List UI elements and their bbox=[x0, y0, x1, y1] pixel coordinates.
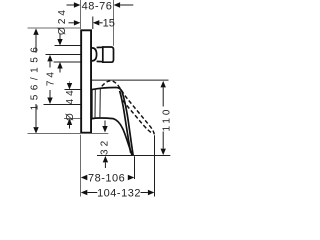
dimension 74 bbox=[45, 55, 56, 104]
handle base top reference line bbox=[65, 89, 92, 91]
escutcheon plate side view bbox=[81, 30, 91, 132]
dimension 48-76 bbox=[67, 1, 134, 13]
extension line knob front bbox=[113, 0, 115, 46]
extension line dashed lever tip bbox=[154, 135, 156, 196]
knob top reference line bbox=[55, 45, 81, 47]
110 top reference line bbox=[92, 79, 169, 81]
knob neck bbox=[97, 47, 103, 61]
dimension 156/156 bbox=[30, 28, 41, 133]
svg-text:Ø 44: Ø 44 bbox=[65, 87, 76, 121]
svg-text:78-106: 78-106 bbox=[88, 172, 125, 184]
handle base cone line bbox=[99, 89, 101, 119]
knob cap bbox=[103, 47, 114, 62]
knob bottom reference line bbox=[54, 61, 81, 63]
dimension Ø24 bbox=[57, 7, 68, 72]
svg-text:15: 15 bbox=[103, 18, 115, 30]
extension line solid lever tip bbox=[134, 156, 136, 179]
handle base flange line bbox=[94, 89, 96, 118]
knob flange at plate bbox=[92, 48, 97, 61]
dimension Ø44 bbox=[65, 82, 76, 129]
handle axis reference line bbox=[44, 104, 81, 106]
svg-text:74: 74 bbox=[45, 69, 56, 86]
svg-text:110: 110 bbox=[162, 107, 173, 132]
handle front bevel line bbox=[120, 91, 131, 153]
reference line plate top gray bbox=[28, 27, 81, 29]
extension line plate back top bbox=[80, 0, 82, 29]
dimension 110 bbox=[161, 81, 173, 155]
dimension 104-132 bbox=[81, 187, 155, 199]
svg-text:104-132: 104-132 bbox=[97, 187, 141, 199]
svg-text:32: 32 bbox=[99, 138, 110, 155]
dimension 78-106 bbox=[81, 172, 135, 184]
dimension 15 bbox=[69, 18, 115, 30]
extension line plate back bottom bbox=[80, 135, 82, 197]
dimension 32 bbox=[99, 121, 110, 169]
knob axis reference line bbox=[46, 54, 81, 56]
handle body and lever solid bbox=[92, 87, 133, 155]
svg-text:156/156: 156/156 bbox=[30, 43, 41, 111]
handle base bottom reference line gray bbox=[64, 118, 92, 120]
dashed raised handle top edge bbox=[102, 81, 155, 135]
reference line bottom gray bbox=[28, 133, 109, 135]
extension line plate front for 15 bbox=[92, 17, 94, 30]
bottom tip reference line bbox=[97, 155, 170, 157]
svg-text:48-76: 48-76 bbox=[82, 1, 113, 13]
dashed raised handle bottom edge bbox=[123, 101, 152, 133]
svg-text:Ø24: Ø24 bbox=[57, 7, 68, 35]
